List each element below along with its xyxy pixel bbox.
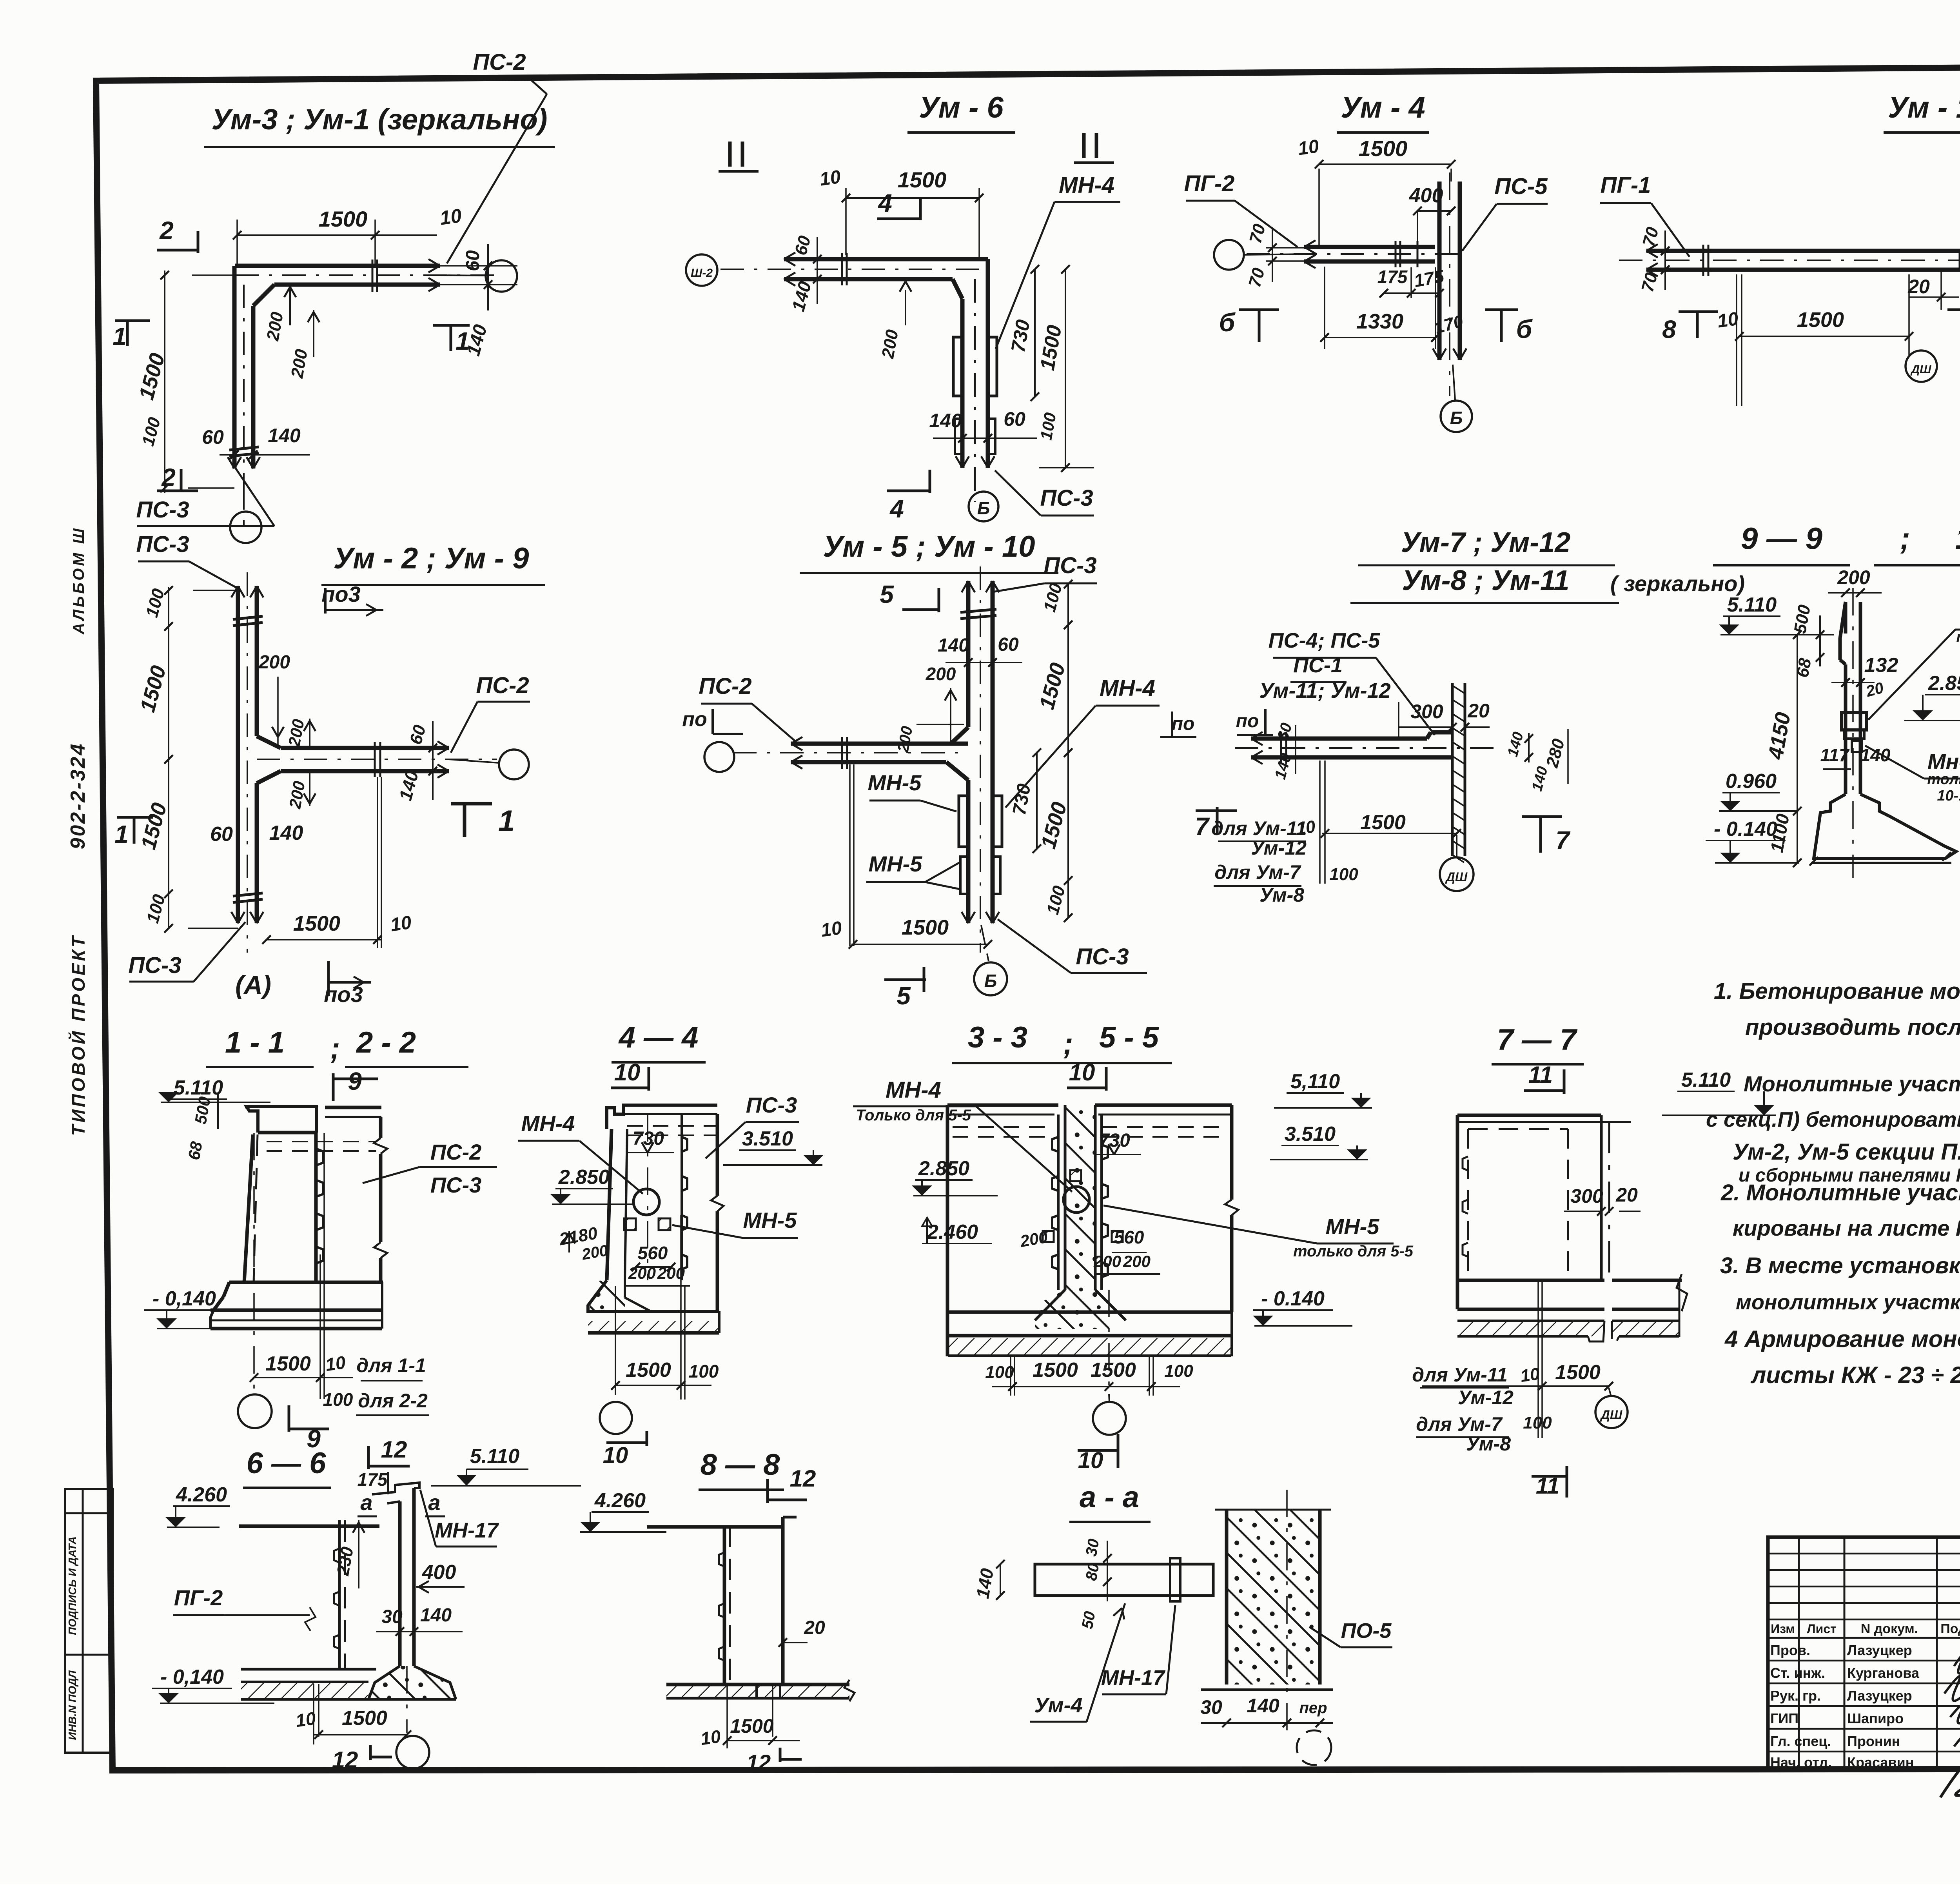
teeth of 8-8 — [719, 1552, 724, 1567]
svg-text:Ум-8 ; Ум-11: Ум-8 ; Ум-11 — [1402, 565, 1569, 596]
svg-text:9 — 9: 9 — 9 — [1741, 521, 1823, 555]
svg-text:10: 10 — [324, 1352, 347, 1375]
svg-text:140: 140 — [929, 410, 962, 432]
dim 10 1500 12 bottom of 8-8 — [727, 1740, 800, 1741]
svg-text:б: б — [1516, 314, 1533, 343]
section mark 11 top-left of Ум-6 — [728, 142, 732, 167]
svg-text:а - а: а - а — [1080, 1481, 1139, 1514]
svg-text:по3: по3 — [321, 582, 361, 606]
embedded plate МН-5 on Ум-5 — [960, 857, 968, 894]
svg-text:;: ; — [1900, 521, 1910, 555]
axis leader to bubble — [440, 275, 486, 276]
svg-text:1330: 1330 — [1356, 310, 1403, 333]
svg-text:- 0,140: - 0,140 — [160, 1666, 224, 1688]
central monolith column of 3-3 — [1035, 1105, 1109, 1329]
grid bubble below 3-3 — [1093, 1402, 1126, 1435]
svg-text:ТИПОВОЙ ПРОЕКТ: ТИПОВОЙ ПРОЕКТ — [68, 934, 89, 1136]
floor slab of 6-6 — [241, 1668, 376, 1671]
svg-text:1500: 1500 — [626, 1359, 671, 1381]
title block left table horizontals — [1768, 1553, 1960, 1555]
svg-text:902-2-324: 902-2-324 — [67, 742, 89, 849]
end plate of а-а — [1170, 1558, 1180, 1601]
joint ticks on Ум-5 horizontal wall — [841, 737, 843, 769]
svg-text:3.510: 3.510 — [742, 1127, 793, 1150]
panel top lines of 7-7 — [1457, 1114, 1601, 1117]
svg-text:МН-5: МН-5 — [1326, 1214, 1380, 1239]
svg-text:0.960: 0.960 — [1726, 770, 1777, 793]
svg-text:Ум-11; Ум-12: Ум-11; Ум-12 — [1259, 679, 1390, 702]
dim line bottom of 7-7 — [1422, 1385, 1609, 1387]
svg-text:Ум - 2 ; Ум - 9: Ум - 2 ; Ум - 9 — [334, 542, 529, 575]
axes of 7-7 — [1537, 1282, 1539, 1438]
svg-text:ПС-2: ПС-2 — [430, 1140, 482, 1164]
wall axis of 1-1 — [253, 1133, 255, 1393]
wall Ум-5 break ticks — [960, 609, 996, 612]
grid bubble ДШ of 7-7 — [1609, 1388, 1611, 1396]
dim 200 top of 9-9 — [1828, 592, 1882, 594]
axis of 8-8 — [772, 1685, 773, 1737]
svg-text:МН-4: МН-4 — [886, 1077, 941, 1103]
svg-text:б: б — [1219, 308, 1236, 337]
teeth joint of 4-4 — [682, 1137, 687, 1152]
svg-text:Мн-5: Мн-5 — [1927, 749, 1960, 774]
svg-text:МН-5: МН-5 — [868, 770, 922, 795]
svg-text:200: 200 — [1837, 566, 1870, 588]
svg-text:2.460: 2.460 — [927, 1221, 978, 1243]
dim line bottom of Ум-7 — [1319, 761, 1321, 884]
grid bubble right of Ум-2 — [499, 750, 529, 779]
dim 140 60 top of Ум-5 — [946, 662, 1022, 663]
svg-text:175: 175 — [1377, 267, 1408, 287]
svg-text:ПГ-2: ПГ-2 — [1184, 171, 1235, 196]
svg-text:5,110: 5,110 — [1290, 1070, 1340, 1093]
svg-text:10: 10 — [1716, 309, 1740, 332]
svg-text:Ум-12: Ум-12 — [1251, 837, 1307, 859]
joint ticks Ум-13 — [1702, 245, 1704, 276]
svg-text:4.260: 4.260 — [176, 1483, 227, 1506]
svg-text:2. Монолитные участки Ум11: 2. Монолитные участки Ум11; Ум-12 ; Ум-1… — [1720, 1180, 1960, 1205]
svg-text:30: 30 — [1200, 1696, 1222, 1718]
dim 140 60 bottom of Ум-6 — [933, 437, 1037, 439]
svg-text:100: 100 — [323, 1389, 353, 1410]
right panel edge of 4-4 — [716, 1114, 719, 1196]
svg-text:7: 7 — [1195, 812, 1210, 840]
section flag Т1 right of Ум-2 — [451, 802, 492, 806]
svg-text:1500: 1500 — [1797, 308, 1844, 332]
svg-text:5: 5 — [897, 982, 911, 1010]
svg-text:1500: 1500 — [1033, 1359, 1078, 1381]
embedded plate МН-4 on Ум-5 — [959, 796, 968, 847]
dim 10 1500 bottom of Ум-5 — [849, 764, 851, 946]
dashed seat lines in 1-1 — [267, 1141, 376, 1142]
svg-text:по: по — [1172, 713, 1195, 734]
svg-text:для 1-1: для 1-1 — [356, 1354, 426, 1376]
wall lines of 8-8 — [723, 1525, 726, 1685]
svg-text:200: 200 — [1093, 1252, 1121, 1271]
svg-text:10: 10 — [389, 912, 413, 936]
svg-text:6 — 6: 6 — 6 — [247, 1447, 326, 1480]
svg-text:140: 140 — [938, 635, 969, 656]
svg-text:7 — 7: 7 — 7 — [1497, 1023, 1578, 1056]
title block outer frame — [1768, 1537, 1960, 1770]
svg-text:20: 20 — [1467, 700, 1490, 722]
svg-text:100: 100 — [1523, 1413, 1552, 1432]
dim 1330 of Ум-4 — [1324, 267, 1325, 349]
svg-text:60: 60 — [202, 426, 224, 448]
МН-4 circle of 3-3 — [1063, 1187, 1089, 1213]
svg-text:Ум-8: Ум-8 — [1259, 884, 1304, 906]
svg-text:Ум - 13: Ум - 13 — [1888, 91, 1960, 124]
svg-text:Лист: Лист — [1807, 1622, 1837, 1636]
grid bubble below 1-1 — [238, 1394, 272, 1428]
svg-text:( зеркально): ( зеркально) — [1610, 571, 1745, 596]
svg-text:10 — 10: 10 — 10 — [1955, 521, 1960, 555]
top slab right of 3-3 — [1095, 1104, 1232, 1107]
svg-text:730: 730 — [633, 1128, 664, 1149]
dim 1500 10 bottom of 1-1 — [254, 1377, 323, 1378]
svg-text:3.510: 3.510 — [1285, 1123, 1336, 1145]
svg-text:10: 10 — [294, 1708, 317, 1731]
svg-text:10: 10 — [818, 167, 842, 190]
svg-text:пер: пер — [1299, 1699, 1327, 1717]
dim 1500 right of Ум-6 — [1065, 269, 1066, 468]
svg-text:Нач. отд.: Нач. отд. — [1770, 1754, 1832, 1770]
svg-text:ДШ: ДШ — [1445, 870, 1468, 884]
svg-text:1500: 1500 — [293, 912, 340, 935]
svg-text:300: 300 — [1570, 1185, 1603, 1207]
МН-4 plate on 9-9 — [1842, 713, 1867, 730]
grid bubble below 4-4 — [600, 1402, 632, 1434]
svg-text:Гл. спец.: Гл. спец. — [1770, 1733, 1831, 1749]
svg-text:для Ум-11: для Ум-11 — [1211, 817, 1307, 839]
svg-text:400: 400 — [1409, 184, 1443, 207]
svg-text:Лазуцкер: Лазуцкер — [1847, 1642, 1912, 1658]
dim 200 of Ум-5 — [950, 688, 951, 742]
svg-text:1500: 1500 — [1359, 136, 1408, 161]
teeth on 7-7 dashed edge — [1463, 1156, 1468, 1171]
svg-text:ПС-5: ПС-5 — [1494, 174, 1548, 199]
svg-text:ГИП: ГИП — [1770, 1710, 1798, 1726]
svg-text:Лазуцкер: Лазуцкер — [1847, 1688, 1912, 1704]
svg-text:10: 10 — [614, 1059, 641, 1085]
teeth on 6-6 panel — [334, 1548, 339, 1563]
dim 60 140 bottom of Ум-3 — [220, 454, 310, 456]
section flag 4 bottom — [887, 490, 930, 492]
svg-text:9: 9 — [348, 1067, 362, 1095]
svg-text:Ум-12: Ум-12 — [1458, 1387, 1514, 1409]
svg-text:ПС-3: ПС-3 — [1044, 553, 1096, 578]
svg-text:ПС-4; ПС-5: ПС-4; ПС-5 — [1269, 629, 1381, 652]
svg-text:Только для 5-5: Только для 5-5 — [856, 1107, 971, 1124]
left panel edge of 6-6 — [338, 1520, 341, 1669]
grid bubble left of Ум-5 — [704, 742, 734, 772]
svg-text:ПГ-2: ПГ-2 — [174, 1585, 223, 1610]
left panel of 3-3 — [946, 1105, 949, 1312]
base slab of 8-8 — [666, 1683, 849, 1686]
concrete wall of а-а — [1227, 1510, 1320, 1685]
top slab of 1-1 — [247, 1107, 317, 1133]
wall Ум-2 horizontal strip — [281, 746, 449, 750]
svg-text:1500: 1500 — [342, 1707, 387, 1730]
svg-text:Ум-4: Ум-4 — [1034, 1694, 1082, 1717]
svg-text:11: 11 — [1528, 1062, 1553, 1088]
svg-text:МН-4: МН-4 — [521, 1111, 575, 1136]
svg-text:4: 4 — [877, 189, 892, 217]
wall 4-4 outlines — [607, 1129, 612, 1280]
svg-text:МН-5: МН-5 — [743, 1208, 797, 1233]
section flag 2 top — [157, 249, 198, 252]
base slab of 7-7 — [1457, 1279, 1604, 1282]
svg-text:ДШ: ДШ — [1910, 363, 1931, 376]
top line of 6-6 — [239, 1525, 379, 1528]
svg-text:2.850: 2.850 — [918, 1157, 969, 1180]
svg-text:8 — 8: 8 — 8 — [701, 1448, 780, 1481]
wall Ум-5 horizontal strip — [791, 742, 968, 746]
dim 10 1500 bottom of 6-6 — [313, 1684, 314, 1744]
svg-text:60: 60 — [463, 250, 483, 271]
svg-text:1 - 1: 1 - 1 — [225, 1026, 285, 1059]
dim 70 70 left of Ум-13 — [1664, 231, 1666, 290]
joint ticks on Ум-2 horizontal wall — [374, 742, 376, 777]
svg-text:для Ум-7: для Ум-7 — [1416, 1413, 1503, 1435]
svg-text:ПС-3: ПС-3 — [136, 497, 189, 523]
dashed seat lines right 3-3 — [1102, 1126, 1227, 1128]
svg-text:68: 68 — [185, 1140, 206, 1162]
dim 730 right of Ум-6 — [1034, 269, 1036, 397]
svg-text:МН-4: МН-4 — [1059, 172, 1114, 198]
wall Ум-13 strip — [1646, 249, 1960, 253]
hatched floor strip of 6-6 — [241, 1683, 368, 1699]
svg-text:Подпись: Подпись — [1940, 1621, 1960, 1636]
wall Ум-3 vertical strip — [232, 266, 237, 468]
section flag 1 left — [115, 319, 150, 322]
svg-text:ПОДПИСЬ И ДАТА: ПОДПИСЬ И ДАТА — [66, 1536, 78, 1635]
grid bubble ДШ of Ум-7 — [1440, 857, 1474, 891]
svg-text:1500: 1500 — [898, 167, 947, 192]
plate bar of а-а — [1035, 1564, 1213, 1596]
svg-text:Ум - 5 ; Ум - 10: Ум - 5 ; Ум - 10 — [823, 530, 1035, 563]
svg-text:1500: 1500 — [1360, 811, 1406, 834]
svg-text:400: 400 — [422, 1561, 456, 1584]
svg-text:Курганова: Курганова — [1847, 1665, 1920, 1681]
svg-text:Монолитные участки Ум-7; У: Монолитные участки Ум-7; Ум-8 секции П-Д… — [1744, 1071, 1960, 1096]
teeth on wall 1-1 — [316, 1149, 323, 1165]
svg-text:4: 4 — [889, 495, 904, 523]
top line of 8-8 — [647, 1525, 783, 1529]
МН-5 plate on 9-9 — [1852, 741, 1862, 752]
svg-text:ПС-3: ПС-3 — [746, 1093, 797, 1117]
wall 9-9 centerline — [1852, 588, 1854, 878]
svg-text:N докум.: N докум. — [1861, 1621, 1918, 1636]
dim 1500 10 top of Ум-4 — [1318, 169, 1320, 247]
wall Ум-6 horizontal strip — [784, 257, 988, 261]
svg-text:ДШ: ДШ — [1600, 1408, 1622, 1422]
svg-text:50: 50 — [1079, 1610, 1099, 1630]
svg-text:132: 132 — [1864, 654, 1898, 677]
svg-text:по: по — [1236, 711, 1259, 732]
panel right edges of 7-7 — [1600, 1115, 1603, 1282]
wall Ум-2 break ticks — [233, 616, 263, 619]
svg-text:68: 68 — [1793, 657, 1815, 679]
dim 1500 100 left of Ум-3 — [192, 274, 234, 276]
svg-text:Красавин: Красавин — [1847, 1754, 1914, 1770]
svg-text:140: 140 — [269, 822, 303, 844]
dim 200 Ум-6 — [905, 290, 906, 325]
svg-text:Изм: Изм — [1771, 1622, 1795, 1636]
svg-text:12: 12 — [790, 1465, 816, 1492]
svg-text:2.850: 2.850 — [1928, 672, 1960, 695]
svg-text:;: ; — [330, 1032, 340, 1065]
svg-text:100: 100 — [985, 1363, 1014, 1382]
svg-text:Пронин: Пронин — [1847, 1733, 1900, 1749]
grid bubble right of Ум-3 — [486, 260, 517, 292]
svg-text:монолитных участков Ум-5; У: монолитных участков Ум-5; Ум-6 ; Ум-10 в… — [1736, 1291, 1960, 1314]
svg-text:Ш-2: Ш-2 — [691, 267, 713, 280]
dashed seat lines left 3-3 — [953, 1126, 1054, 1128]
svg-text:5.110: 5.110 — [1727, 594, 1777, 616]
svg-text:Б: Б — [977, 498, 990, 518]
svg-text:Б: Б — [1450, 408, 1463, 428]
svg-text:Ум-8: Ум-8 — [1466, 1433, 1511, 1455]
break mark right of 7-7 — [1677, 1274, 1687, 1311]
svg-text:140: 140 — [268, 425, 301, 447]
svg-text:1: 1 — [114, 820, 129, 848]
dim 1500 10 top of Ум-6 — [845, 188, 847, 255]
svg-text:20: 20 — [804, 1617, 825, 1638]
dim 70 70 left of Ум-4 — [1266, 247, 1305, 249]
svg-text:12: 12 — [381, 1436, 407, 1463]
teeth on right panel left edge — [1100, 1115, 1103, 1290]
wall Ум-3 break ticks — [229, 447, 259, 450]
section flag б left of Ум-4 — [1239, 309, 1279, 311]
grid bubble Б of Ум-6 — [969, 492, 998, 521]
dims right of Ум-7 — [1528, 733, 1530, 762]
footing 9-9 — [1814, 794, 1956, 859]
top slab of 4-4 — [607, 1105, 717, 1129]
svg-text:1500: 1500 — [730, 1715, 773, 1737]
svg-text:ИНВ.N ПОДЛ: ИНВ.N ПОДЛ — [66, 1670, 78, 1740]
dims left of Ум-2 — [193, 590, 238, 591]
svg-text:7: 7 — [1555, 826, 1571, 854]
svg-text:60: 60 — [1004, 408, 1025, 430]
svg-text:- 0.140: - 0.140 — [1261, 1287, 1325, 1310]
dashed seat lines of 4-4 — [627, 1125, 717, 1127]
МН-4 circle anchor of 4-4 — [633, 1189, 659, 1215]
wall Ум-2 vertical strip — [236, 586, 240, 923]
svg-text:2 - 2: 2 - 2 — [356, 1026, 416, 1059]
dim 200 near corner — [289, 285, 291, 325]
svg-text:- 0.140: - 0.140 — [1714, 818, 1777, 840]
МН-5 squares of 3-3 — [1070, 1170, 1081, 1181]
svg-text:с секц.П) бетонировать совмес: с секц.П) бетонировать совместно с монол… — [1706, 1108, 1960, 1131]
svg-text:Ум-7 ; Ум-12: Ум-7 ; Ум-12 — [1401, 527, 1571, 558]
svg-text:10-10: 10-10 — [1937, 788, 1960, 804]
svg-text:для Ум-11: для Ум-11 — [1412, 1364, 1508, 1386]
svg-text:730: 730 — [1099, 1130, 1130, 1151]
wall Ум-3 horizontal strip — [235, 264, 440, 268]
embedded plate МН-5 on Ум-6 — [955, 419, 962, 454]
svg-text:10: 10 — [1297, 136, 1321, 160]
svg-text:ПС-2: ПС-2 — [476, 673, 529, 698]
svg-text:ПГ-1: ПГ-1 — [1601, 172, 1651, 198]
axis of а-а — [1286, 1490, 1288, 1741]
svg-text:30: 30 — [381, 1606, 403, 1627]
svg-text:Шапиро: Шапиро — [1847, 1710, 1904, 1726]
svg-text:Ум - 4: Ум - 4 — [1341, 91, 1425, 124]
svg-text:ПС-2: ПС-2 — [473, 49, 526, 75]
svg-text:12: 12 — [746, 1750, 771, 1775]
svg-text:10: 10 — [1295, 817, 1317, 839]
svg-text:для Ум-7: для Ум-7 — [1214, 861, 1301, 883]
svg-text:10: 10 — [603, 1443, 628, 1468]
wall Ум-6 vertical strip — [986, 259, 990, 468]
svg-text:ПО-5: ПО-5 — [1341, 1619, 1392, 1643]
svg-text:для 2-2: для 2-2 — [358, 1390, 428, 1412]
svg-text:кированы на листе КЖ - 37;3: кированы на листе КЖ - 37;36. Ум-1 ÷ 10 … — [1733, 1216, 1960, 1240]
base slab lines of 3-3 — [947, 1334, 1232, 1338]
section mark 11 top-right of Ум-6 — [1082, 133, 1086, 158]
svg-text:117: 117 — [1820, 745, 1850, 765]
svg-text:2: 2 — [159, 216, 174, 245]
wall 1-1 outline — [244, 1135, 253, 1282]
grid bubble Б below ПС-5 — [1441, 401, 1472, 432]
svg-text:5.110: 5.110 — [470, 1445, 519, 1468]
svg-text:30: 30 — [1083, 1537, 1103, 1557]
svg-text:а: а — [360, 1490, 372, 1515]
svg-text:10: 10 — [699, 1726, 722, 1749]
dim 1500 100 bottom of 4-4 — [615, 1385, 683, 1386]
svg-text:только для: только для — [1927, 771, 1960, 788]
svg-text:1500: 1500 — [1555, 1361, 1601, 1384]
МН-5 plates of 4-4 — [624, 1218, 636, 1230]
dim 60 140 right of Ум-2 — [432, 721, 434, 800]
grid bubble ДШ of Ум-13 — [1906, 350, 1937, 382]
svg-text:а: а — [428, 1490, 440, 1515]
dim 4150 of 9-9 — [1797, 635, 1798, 863]
svg-text:200: 200 — [258, 652, 290, 673]
svg-text:Ум-3 ; Ум-1 (зеркально): Ум-3 ; Ум-1 (зеркально) — [212, 103, 548, 136]
svg-text:60: 60 — [998, 634, 1019, 655]
svg-text:200: 200 — [1123, 1252, 1151, 1271]
dim 100 1500 1500 100 bottom of 3-3 — [992, 1386, 1180, 1387]
dashed joint outline of 7-7 — [1467, 1129, 1469, 1282]
svg-text:Пров.: Пров. — [1770, 1642, 1810, 1658]
svg-text:по: по — [682, 708, 707, 731]
wall Ум-5 vertical strip — [966, 581, 971, 727]
svg-text:560: 560 — [638, 1243, 668, 1263]
svg-text:производить после установки: производить после установки стеновых пан… — [1745, 1015, 1960, 1040]
svg-text:2: 2 — [161, 463, 176, 492]
section flag 1 right — [433, 324, 470, 327]
footing haunches of 3-3 — [1035, 1290, 1065, 1320]
right panel line of 1-1 with breaks — [379, 1117, 383, 1138]
svg-text:;: ; — [1063, 1027, 1073, 1060]
svg-text:ПС-3: ПС-3 — [128, 953, 181, 978]
svg-text:300: 300 — [1410, 701, 1443, 722]
svg-text:140: 140 — [1860, 745, 1891, 765]
svg-text:1500: 1500 — [1091, 1359, 1136, 1381]
svg-text:5.110: 5.110 — [1681, 1069, 1731, 1091]
dim 1500 10 bottom of Ум-2 — [377, 777, 378, 948]
dim 10 1500 of Ум-13 — [1736, 274, 1737, 406]
dim 730 of Ум-5 — [1036, 753, 1038, 849]
paz of 8-8 — [757, 1685, 780, 1698]
svg-text:МН-17: МН-17 — [1101, 1666, 1166, 1690]
dims right of Ум-5 — [1067, 584, 1069, 918]
svg-text:12: 12 — [332, 1747, 358, 1773]
section flag 8 left — [1679, 310, 1718, 313]
svg-text:АЛЬБОМ Ш: АЛЬБОМ Ш — [70, 526, 87, 635]
